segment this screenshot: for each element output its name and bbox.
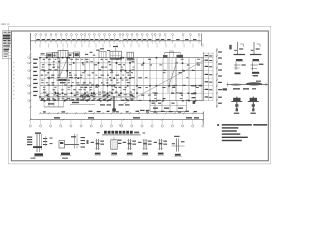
right detail A hook anchorage <box>229 42 245 62</box>
vertical grid lines left wing <box>40 58 135 101</box>
bottom dimension line second <box>30 112 205 125</box>
right detail E beam elevation <box>227 81 269 90</box>
beads on right wing floor lines <box>152 70 203 101</box>
faint dot column inside left margin <box>13 62 14 99</box>
right interior dimension ladder <box>203 52 213 100</box>
building interior floor lines <box>40 63 203 97</box>
column section marks <box>39 57 196 102</box>
axis stems from top dimension to building <box>40 44 203 48</box>
plan title text <box>97 131 146 135</box>
bottom recess dimension <box>70 102 95 105</box>
building bottom wall line <box>40 100 203 102</box>
bottom wing right <box>150 101 187 112</box>
bottom detail 7 column section <box>154 139 167 155</box>
bottom detail 5 column section <box>123 139 136 155</box>
sheet outer border <box>8 26 270 164</box>
plan annotation text left wing <box>41 59 135 101</box>
bottom grid axis bubbles <box>29 120 204 128</box>
right detail D stirrup <box>251 63 264 77</box>
annotation rows below bottom wall middle <box>100 104 149 111</box>
bottom detail 4 box section <box>111 137 122 155</box>
top bay window middle <box>110 46 134 60</box>
right detail B hook anchorage <box>250 42 262 62</box>
plan annotation text right wing <box>138 59 202 101</box>
top dimension ticks <box>35 40 200 42</box>
top bay window right <box>163 51 183 58</box>
top dimension line <box>30 33 201 50</box>
vertical grid lines right wing <box>137 58 202 101</box>
beam label right of plan <box>191 88 227 104</box>
top bay window left <box>40 48 80 57</box>
right detail C stirrup <box>234 63 246 75</box>
top small block and annotations left of middle bay <box>85 48 110 58</box>
bottom detail 6 column section <box>138 139 151 155</box>
bottom balcony left <box>44 101 64 107</box>
bottom detail 3 column section <box>91 139 104 155</box>
general notes block <box>217 124 267 141</box>
bottom dimension line first <box>39 111 204 114</box>
right detail F column tee <box>231 97 242 114</box>
building top wall line <box>40 57 203 59</box>
right detail G column tee <box>248 97 259 114</box>
dense annotation band above bottom wall <box>41 95 133 101</box>
scan speck above title strip <box>1 24 9 25</box>
stair flight right <box>168 58 176 93</box>
bottom detail 2 beam section <box>59 134 89 159</box>
left dimension column <box>28 33 38 120</box>
right outer dimension line <box>216 48 222 108</box>
bottom detail 8 tie beam <box>172 136 185 157</box>
left title block strip <box>3 31 12 59</box>
top grid axis bubbles <box>35 34 200 44</box>
column mark with leader <box>112 96 116 113</box>
top dimension text figures <box>37 39 197 40</box>
section cut diagonal line <box>123 60 204 104</box>
stair flight left <box>59 58 68 84</box>
bottom detail 1 stair section <box>27 132 53 158</box>
drawing inner frame <box>11 31 268 161</box>
